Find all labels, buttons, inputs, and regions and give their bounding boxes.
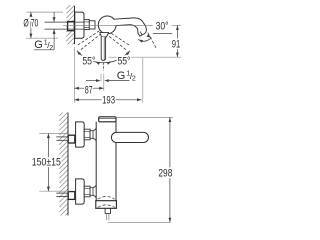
label G1/2 top <box>34 49 54 51</box>
body column left edge <box>95 122 97 201</box>
dim 91: top reference tick <box>172 24 181 26</box>
escutcheon 1 <box>76 122 85 147</box>
55-deg swung lever dashed (left) <box>76 31 99 46</box>
91 bottom reference line <box>109 56 182 58</box>
supply pipe stub 2 <box>56 192 68 194</box>
dim 298: dimension line <box>169 117 171 222</box>
dim 30deg: arc with arrows <box>138 38 151 42</box>
outlet extension lines <box>100 74 102 82</box>
inlet bell 1 <box>93 128 96 131</box>
dim 298: extension lines <box>116 116 173 118</box>
dim 87 <box>74 87 104 89</box>
supply pipe stub 1 <box>56 136 68 138</box>
wall hatching (bottom view) <box>59 107 68 221</box>
assembly centerline <box>63 24 153 26</box>
wall line (bottom view) <box>67 113 69 216</box>
svg-text:87: 87 <box>85 84 93 96</box>
wall line <box>74 6 76 44</box>
55-deg swung lever dashed (right) <box>107 31 130 46</box>
in-wall elbow fitting <box>68 22 75 31</box>
dim 30deg: leader line <box>153 33 172 35</box>
union nut <box>84 20 89 30</box>
dim 150±15: extension lines <box>39 133 69 135</box>
svg-text:30°: 30° <box>156 21 169 33</box>
svg-text:193: 193 <box>102 94 115 106</box>
dim O70: extension lines <box>27 11 64 13</box>
in-wall elbow 2 <box>68 192 75 200</box>
body cap <box>99 117 116 122</box>
connector sleeve <box>89 21 95 29</box>
concealed supply pipe <box>45 21 85 23</box>
inlet bell 2 <box>93 185 96 188</box>
dim 150±15: dimension line <box>47 134 49 192</box>
spout capsule <box>111 132 148 142</box>
wall hatching (side view) <box>66 1 74 51</box>
valve body <box>98 16 116 34</box>
neck 2 <box>90 188 93 196</box>
dim 91: dimension line <box>176 25 178 57</box>
spout aerator line <box>140 32 142 35</box>
escutcheon <box>75 12 84 38</box>
svg-text:Ø 70: Ø 70 <box>23 17 38 29</box>
neck 1 <box>90 131 93 139</box>
hidden dashed arc in coupling <box>98 205 115 207</box>
svg-text:91: 91 <box>172 38 181 50</box>
svg-text:55°: 55° <box>82 56 95 68</box>
svg-text:298: 298 <box>158 167 172 179</box>
dim 193 <box>74 99 141 101</box>
hidden outlet dashed arc upper <box>98 197 115 200</box>
hand-shower outlet stub <box>104 208 106 213</box>
dim G1/2 union thread leader <box>53 12 55 22</box>
body column right edge <box>115 122 117 133</box>
wall extension line down <box>73 47 75 103</box>
dim O70: dimension line + arrows <box>30 12 32 38</box>
svg-text:150±15: 150±15 <box>32 157 61 169</box>
union nut 1 <box>84 129 90 140</box>
55-deg swing arc <box>77 51 130 63</box>
dim 30deg: dashed ray <box>148 33 157 49</box>
handle collar <box>100 33 109 37</box>
outlet coupling <box>96 201 117 209</box>
spout tip extension line <box>142 58 144 103</box>
spout <box>114 18 146 36</box>
union nut 2 <box>84 186 90 197</box>
in-wall elbow 1 <box>68 135 75 143</box>
label G1/2 bottom with leaders <box>86 80 96 82</box>
escutcheon 2 <box>76 179 85 204</box>
svg-text:55°: 55° <box>118 56 131 68</box>
handle centerline dashed <box>102 62 104 71</box>
handle lever <box>101 37 105 60</box>
